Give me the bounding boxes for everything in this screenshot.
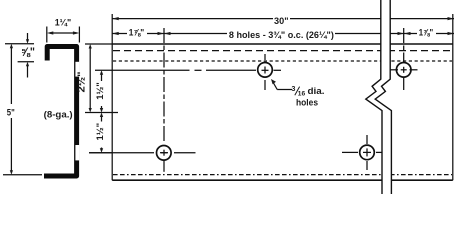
plate left edge with extension line xyxy=(111,14,113,180)
hidden line: bottom flange fold xyxy=(113,174,452,176)
dimension 1-7/8in right line with arrows xyxy=(404,32,454,35)
svg-text:holes: holes xyxy=(296,97,318,108)
center line of last hole column (x=404) xyxy=(401,28,407,90)
plate right edge with extension line xyxy=(452,14,454,180)
label 1-1/2in lower (rotated) xyxy=(95,122,107,143)
hole 2 (bottom row, first, circle) xyxy=(157,146,172,161)
svg-text:1⅞": 1⅞" xyxy=(129,27,145,38)
dimension 2-1/2in line with arrows xyxy=(89,44,92,113)
svg-text:dia.: dia. xyxy=(308,86,325,97)
tick at mid reference xyxy=(85,112,118,114)
svg-text:5": 5" xyxy=(7,108,15,119)
hidden line: lip edge xyxy=(113,60,452,62)
break gap (white mask between break lines) xyxy=(366,0,392,194)
center line of bottom hole row xyxy=(89,152,196,154)
dimension 5in line with arrows xyxy=(10,44,13,175)
dimension 1-1/2in lower line with arrows xyxy=(100,113,103,153)
plate top edge xyxy=(112,43,453,45)
dimension 5/8in arrows xyxy=(26,33,29,78)
dimension 30in line with arrows xyxy=(112,17,454,20)
svg-text:1⅞": 1⅞" xyxy=(419,27,434,38)
break line right (zigzag) xyxy=(375,0,391,194)
label 3/16 dia. holes xyxy=(292,86,325,108)
dimension 1-7/8in left line with arrows xyxy=(112,32,164,35)
dimension 1-1/4in extension lines xyxy=(47,27,80,43)
label 5in xyxy=(5,105,17,119)
svg-text:1¼": 1¼" xyxy=(55,17,72,28)
tick mark at lip bottom (5/8in dim) xyxy=(18,61,34,63)
hole 3 (bottom row, circle with center cross) xyxy=(342,135,383,170)
dimension 1-1/4in line with arrows xyxy=(47,31,80,34)
tick mark at channel bottom (5in dim) xyxy=(3,174,42,176)
svg-text:(8-ga.): (8-ga.) xyxy=(44,110,73,121)
leader arrow to hole 1 xyxy=(271,79,292,90)
svg-text:1½": 1½" xyxy=(95,82,106,100)
channel cross-section (lip, top flange, web, bottom flange) xyxy=(44,47,79,177)
tick mark at channel top (datum for 5in and 5/8in dims) xyxy=(5,43,34,45)
svg-text:30": 30" xyxy=(274,16,289,27)
svg-text:3: 3 xyxy=(292,86,296,93)
dimension 8-holes line with arrows xyxy=(164,32,404,35)
svg-text:1½": 1½" xyxy=(95,123,106,141)
tick at bottom hole row xyxy=(89,152,112,154)
label 1-1/2in upper (rotated) xyxy=(95,81,107,101)
svg-text:2½": 2½" xyxy=(76,71,88,92)
tick at top hole row xyxy=(95,69,112,71)
hidden line: top flange fold xyxy=(113,50,452,52)
tick at top datum (channel top level) xyxy=(85,43,112,45)
hole 1 (top row, circle with center cross) xyxy=(258,54,273,90)
svg-text:⅝": ⅝" xyxy=(21,45,35,59)
center line of first hole column (x=164) xyxy=(161,28,167,172)
plate bottom edge xyxy=(112,179,453,181)
center line of top hole row xyxy=(112,69,281,71)
svg-text:8 holes - 3¾" o.c. (26¼"): 8 holes - 3¾" o.c. (26¼") xyxy=(229,30,334,41)
hole 4 (top row, last, circle with center cross) xyxy=(390,63,418,78)
break line left (zigzag) xyxy=(366,0,382,194)
dimension 1-1/2in upper line with arrows xyxy=(100,70,103,112)
